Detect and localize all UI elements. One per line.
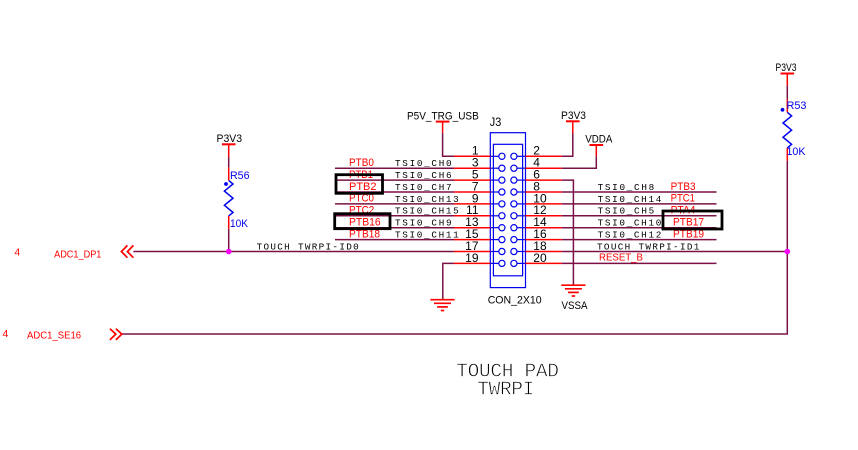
svg-text:VSSA: VSSA [562,300,589,312]
svg-text:P5V_TRG_USB: P5V_TRG_USB [407,110,479,122]
svg-text:TSI0_CH13: TSI0_CH13 [395,194,459,205]
svg-text:TSI0_CH5: TSI0_CH5 [598,206,655,217]
pin 7 of J3 [454,179,505,195]
pin 3 of J3 [454,156,505,172]
pin 8 of J3 [511,179,562,195]
svg-text:J3: J3 [490,117,502,129]
wire net RESET_B (pin 20) [562,262,717,264]
pin 6 of J3 [511,168,562,184]
svg-text:ADC1_SE16: ADC1_SE16 [27,329,81,341]
svg-text:10K: 10K [787,146,807,158]
svg-text:PTB18: PTB18 [349,228,380,240]
svg-text:VDDA: VDDA [585,134,613,146]
pin 20 of J3 [511,251,562,267]
connector J3 inner body [493,144,522,275]
wire net TSI0_CH10 (pin 14) [562,227,717,229]
pin 11 of J3 [454,203,505,219]
wire net TSI0_CH0 (pin 3) [335,167,454,169]
wire net TOUCH_TWRPI-ID1 (pin 18) [562,251,788,253]
resistor R56 body [224,167,233,229]
svg-text:TSI0_CH15: TSI0_CH15 [395,206,459,217]
svg-text:PTB3: PTB3 [671,181,696,193]
pin 14 of J3 [511,215,562,231]
highlight box around PTB17 [663,211,722,229]
svg-text:TSI0_CH14: TSI0_CH14 [598,194,662,205]
wire net TSI0_CH5 (pin 12) [562,215,717,217]
svg-text:P3V3: P3V3 [776,62,797,74]
pin 12 of J3 [511,203,562,219]
power symbol P5V_TRG_USB [407,110,479,133]
highlight box around PTB16 [335,214,390,229]
wire R56 to ADC1_DP1 net [228,229,230,252]
svg-text:PTB16: PTB16 [349,217,381,229]
pin 4 of J3 [511,156,562,172]
svg-text:20: 20 [533,251,547,265]
svg-text:4: 4 [14,247,20,259]
svg-text:TSI0_CH0: TSI0_CH0 [395,158,452,169]
svg-text:ADC1_DP1: ADC1_DP1 [54,248,101,260]
wire P3V3 to pin 2 [562,133,573,156]
svg-text:TSI0_CH12: TSI0_CH12 [598,230,662,241]
svg-text:TSI0_CH8: TSI0_CH8 [598,182,655,193]
off-page connector ADC1_DP1 [121,245,133,257]
pin 13 of J3 [454,215,505,231]
highlight box around PTB2 [336,175,383,194]
pin 10 of J3 [511,191,562,207]
wire P5V_TRG_USB to pin 1 [443,133,454,157]
power symbol VDDA [585,134,613,157]
svg-text:RESET_B: RESET_B [599,252,643,264]
power symbol P3V3 (above pin 2) [561,110,586,133]
wire pin 19 to ground [443,263,454,299]
pin 2 of J3 [511,144,562,160]
svg-text:4: 4 [3,328,9,340]
wire net TSI0_CH7 (pin 7) [335,191,454,193]
svg-text:10K: 10K [230,218,249,230]
svg-text:PTB2: PTB2 [349,181,377,193]
wire VDDA to pin 4 [562,156,597,168]
wire pin 6 to VSSA ground [562,180,574,285]
svg-text:TOUCH TWRPI-ID0: TOUCH TWRPI-ID0 [257,241,359,252]
junction at R56 / ADC1_DP1 [226,249,232,255]
ground symbol VSSA [561,285,585,296]
svg-text:R53: R53 [787,100,807,112]
pin 1 of J3 [454,144,505,160]
svg-text:TSI0_CH7: TSI0_CH7 [395,182,452,193]
wire net TSI0_CH8 (pin 8) [562,191,717,193]
svg-text:PTC1: PTC1 [671,193,695,205]
svg-text:TSI0_CH11: TSI0_CH11 [395,230,459,241]
junction at R53 / TOUCH_TWRPI-ID1 [785,249,791,255]
svg-text:19: 19 [465,251,479,265]
svg-text:R56: R56 [230,170,250,182]
svg-text:P3V3: P3V3 [561,110,586,122]
svg-text:TSI0_CH10: TSI0_CH10 [598,218,662,229]
wire net TSI0_CH6 (pin 5) [335,179,454,181]
wire P3V3 to R56 [228,157,230,167]
pin 17 of J3 [454,239,505,255]
pin 5 of J3 [454,168,505,184]
wire net TSI0_CH13 (pin 9) [335,203,454,205]
wire net TOUCH_TWRPI-ID0 (pin 17) [133,251,454,253]
power symbol P3V3 (above R53) [776,62,797,85]
wire net TSI0_CH12 (pin 16) [562,239,717,241]
svg-text:PTB17: PTB17 [673,217,704,229]
resistor R53 body [781,99,792,160]
wire net TSI0_CH9 (pin 13) [335,227,454,229]
svg-text:P3V3: P3V3 [217,133,243,145]
svg-text:TSI0_CH6: TSI0_CH6 [395,170,452,181]
wire net TSI0_CH14 (pin 10) [562,203,717,205]
svg-text:PTB0: PTB0 [349,157,374,169]
power symbol P3V3 (above R56) [217,133,243,157]
pin 18 of J3 [511,239,562,255]
ground symbol (pin 19) [430,300,454,311]
wire net TSI0_CH15 (pin 11) [335,215,454,217]
pin 19 of J3 [454,251,505,267]
wire P3V3 to R53 [786,86,788,100]
wire net TSI0_CH11 (pin 15) [335,239,454,241]
pin 15 of J3 [454,227,505,243]
wire R53 down to ADC1_SE16 net [122,161,788,334]
svg-text:TSI0_CH9: TSI0_CH9 [395,218,452,229]
pin 16 of J3 [511,227,562,243]
svg-text:CON_2X10: CON_2X10 [488,294,542,306]
connector J3 outer body [490,133,525,288]
svg-text:TWRPI: TWRPI [477,379,534,401]
pin 9 of J3 [454,191,505,207]
off-page connector ADC1_SE16 [110,329,122,340]
